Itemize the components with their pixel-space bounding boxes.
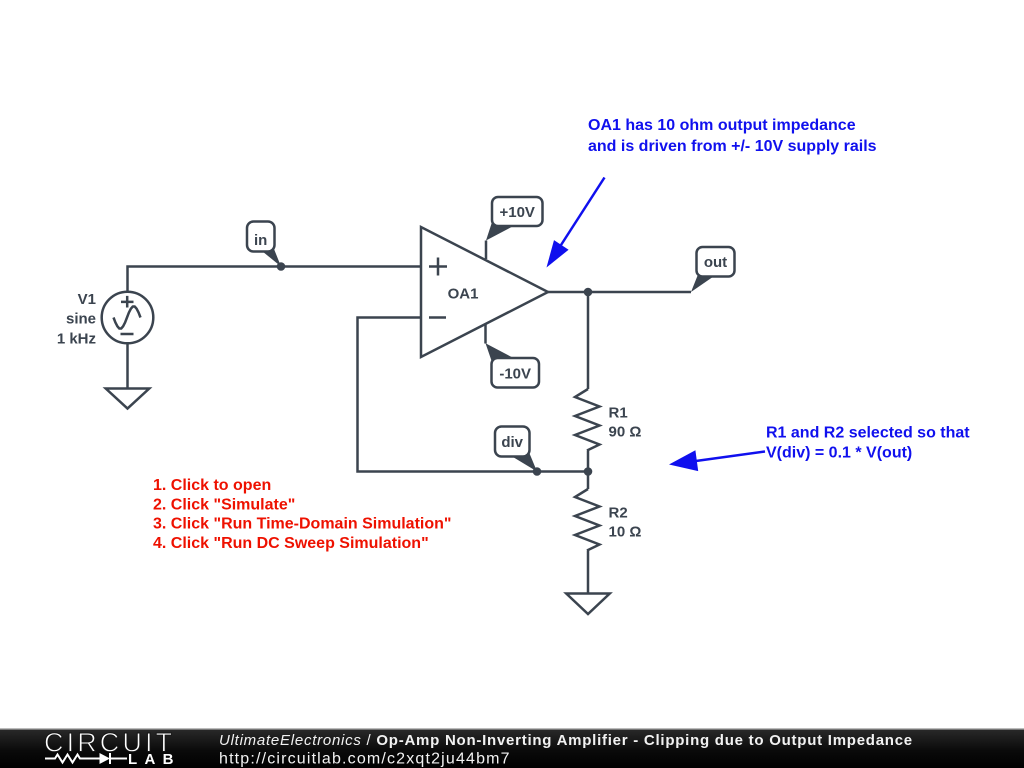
node out junction dot (584, 288, 593, 297)
svg-text:+10V: +10V (499, 204, 534, 221)
svg-text:R2: R2 (609, 504, 628, 521)
svg-text:UltimateElectronics / Op-Amp N: UltimateElectronics / Op-Amp Non-Inverti… (219, 732, 913, 749)
node in flag box (247, 222, 275, 252)
V1 minus mark (121, 333, 134, 336)
annotation arrow to div node (694, 452, 765, 462)
svg-text:R1: R1 (609, 404, 628, 421)
ground symbol below R2 (566, 594, 610, 615)
svg-text:V(div) = 0.1 * V(out): V(div) = 0.1 * V(out) (766, 444, 912, 461)
-10V flag pointer (486, 343, 522, 368)
V1 sine wave (114, 307, 141, 329)
footer bar (0, 729, 1024, 768)
svg-text:1. Click to open: 1. Click to open (153, 477, 271, 494)
wire op-amp output to out (548, 291, 691, 294)
node in flag pointer (257, 244, 281, 267)
V1 plus mark (121, 296, 134, 308)
node in junction dot (277, 262, 286, 271)
svg-text:http://circuitlab.com/c2xqt2ju: http://circuitlab.com/c2xqt2ju44bm7 (219, 751, 511, 768)
op-amp plus input mark (429, 258, 447, 276)
node div flag box (495, 427, 530, 457)
op-amp minus input mark (429, 316, 446, 319)
svg-text:1 kHz: 1 kHz (57, 330, 96, 347)
svg-text:out: out (704, 254, 727, 271)
wire +10V supply to op-amp (485, 241, 488, 260)
svg-text:and is driven from +/- 10V sup: and is driven from +/- 10V supply rails (588, 138, 877, 155)
resistor R2 (575, 489, 600, 551)
logo resistor-diode glyph (45, 755, 127, 763)
svg-text:OA1: OA1 (448, 286, 479, 303)
svg-text:sine: sine (66, 311, 96, 328)
resistor R1 (575, 389, 600, 451)
svg-text:OA1 has 10 ohm output impedanc: OA1 has 10 ohm output impedance (588, 117, 856, 134)
svg-text:LAB: LAB (128, 751, 181, 768)
node out flag pointer (691, 267, 720, 292)
-10V flag box (492, 358, 540, 388)
svg-text:in: in (254, 232, 267, 249)
svg-text:4. Click "Run DC Sweep Simulat: 4. Click "Run DC Sweep Simulation" (153, 535, 429, 552)
feedback wire from op-amp inverting input to div node (358, 318, 589, 472)
wire from V1 top to op-amp non-inverting input (128, 267, 422, 293)
+10V flag box (492, 197, 543, 226)
ground symbol below V1 (106, 389, 150, 409)
wire R2 bottom to ground (587, 551, 590, 594)
svg-text:2. Click "Simulate": 2. Click "Simulate" (153, 496, 295, 513)
svg-text:-10V: -10V (499, 366, 531, 383)
node div junction dot on feedback wire (533, 467, 542, 476)
wire div node to R2 (587, 472, 590, 490)
wire out node down to R1 (587, 292, 590, 389)
+10V flag pointer (486, 216, 521, 241)
svg-text:div: div (501, 434, 523, 451)
wire -10V supply to op-amp (484, 325, 487, 344)
svg-text:3. Click "Run Time-Domain Simu: 3. Click "Run Time-Domain Simulation" (153, 516, 451, 533)
node div flag pointer (503, 445, 537, 472)
svg-text:90 Ω: 90 Ω (609, 424, 642, 441)
op-amp OA1 triangle (421, 227, 548, 357)
div/R1/R2 junction dot (584, 467, 593, 476)
voltage source V1 circle (102, 292, 154, 344)
node out flag box (697, 247, 735, 277)
svg-text:V1: V1 (78, 291, 96, 308)
annotation arrow to op-amp output (561, 178, 605, 246)
svg-text:R1 and R2 selected so that: R1 and R2 selected so that (766, 425, 970, 442)
wire V1 bottom to ground (126, 343, 129, 388)
wire R1 bottom to div node (587, 451, 590, 472)
svg-text:10 Ω: 10 Ω (609, 524, 642, 541)
